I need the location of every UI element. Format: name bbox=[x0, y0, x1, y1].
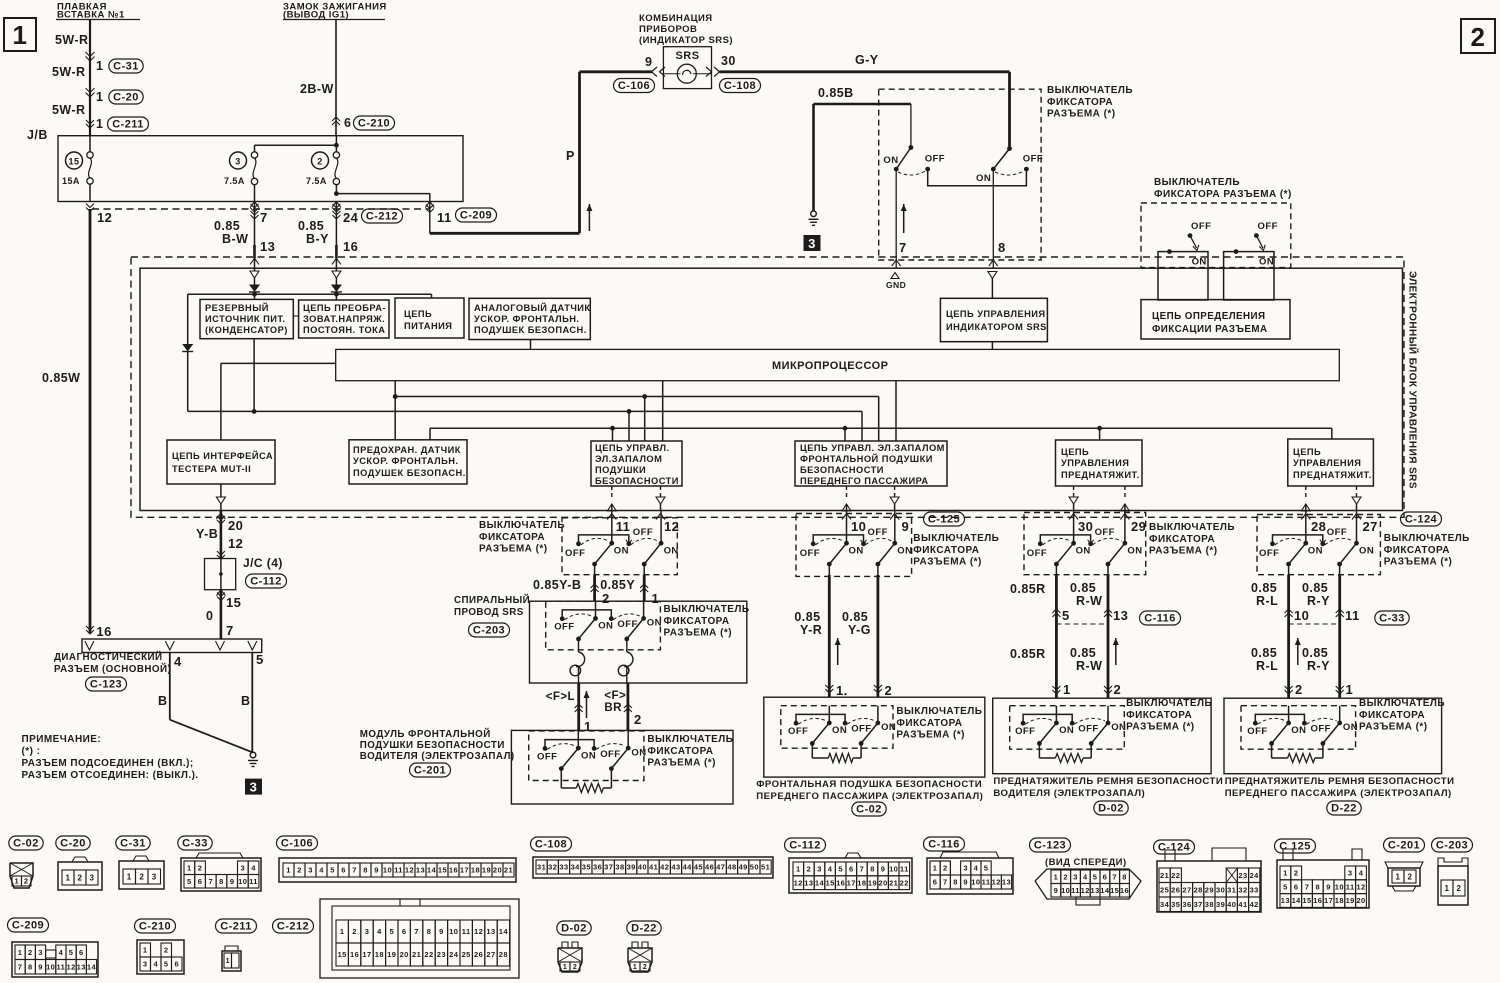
svg-text:40: 40 bbox=[1227, 900, 1236, 909]
svg-text:5: 5 bbox=[1283, 882, 1288, 891]
switch 10/9 lever A bbox=[829, 543, 846, 564]
svg-text:9: 9 bbox=[645, 55, 652, 69]
svg-text:23: 23 bbox=[1238, 871, 1247, 880]
switch 30/29 lever B bbox=[1108, 543, 1125, 564]
svg-text:23: 23 bbox=[437, 950, 446, 959]
passenger module lock switch dashed bbox=[781, 706, 893, 749]
svg-text:1: 1 bbox=[652, 591, 660, 606]
svg-text:39: 39 bbox=[1216, 900, 1225, 909]
connector C-31 pinout bbox=[116, 836, 150, 850]
svg-text:2: 2 bbox=[602, 591, 610, 606]
svg-text:ПРЕДНАТЯЖИТЕЛЬ РЕМНЯ БЕЗОПАСНО: ПРЕДНАТЯЖИТЕЛЬ РЕМНЯ БЕЗОПАСНОСТИ bbox=[993, 776, 1223, 787]
connector C-02 ref bbox=[852, 802, 886, 816]
svg-text:0.85: 0.85 bbox=[214, 219, 240, 233]
svg-text:ФИКСАТОРА: ФИКСАТОРА bbox=[664, 616, 730, 627]
svg-text:ФИКСАТОРА: ФИКСАТОРА bbox=[913, 545, 979, 556]
switch 11/12 lever B bbox=[644, 543, 661, 564]
switch spiral lever B bbox=[627, 618, 644, 639]
svg-text:31: 31 bbox=[1227, 886, 1236, 895]
svg-text:42: 42 bbox=[1250, 900, 1259, 909]
svg-text:31: 31 bbox=[537, 863, 546, 872]
svg-text:ON: ON bbox=[897, 545, 912, 556]
svg-text:C-123: C-123 bbox=[1034, 840, 1066, 852]
svg-text:OFF: OFF bbox=[1191, 221, 1211, 232]
switch 30/29 contact A feed wire bbox=[1073, 510, 1075, 543]
svg-text:ON: ON bbox=[614, 545, 629, 556]
svg-text:РАЗЪЕМА (*): РАЗЪЕМА (*) bbox=[664, 628, 732, 639]
svg-text:ON: ON bbox=[1259, 257, 1274, 268]
svg-text:24: 24 bbox=[343, 210, 359, 225]
svg-text:8: 8 bbox=[363, 866, 368, 875]
switch 30/29 OFF bridge bbox=[1038, 541, 1043, 546]
svg-text:1: 1 bbox=[127, 872, 132, 881]
svg-text:7.5A: 7.5A bbox=[224, 176, 245, 186]
lock detect cell 2 bbox=[1224, 252, 1274, 300]
backup diode branch bbox=[187, 294, 189, 344]
svg-text:1: 1 bbox=[18, 948, 23, 957]
svg-text:22: 22 bbox=[424, 950, 433, 959]
svg-text:Y-R: Y-R bbox=[800, 623, 822, 637]
svg-text:C-211: C-211 bbox=[112, 119, 144, 131]
svg-text:24: 24 bbox=[449, 950, 459, 959]
safing G sensor box bbox=[349, 440, 467, 484]
svg-text:30: 30 bbox=[1078, 519, 1093, 534]
svg-text:C-31: C-31 bbox=[113, 61, 139, 73]
svg-text:ФИКСАТОРА: ФИКСАТОРА bbox=[1359, 710, 1425, 721]
svg-text:13: 13 bbox=[77, 963, 86, 972]
wire 7 to GND bbox=[895, 169, 897, 260]
fuse 15 (15A) bbox=[66, 152, 83, 169]
svg-text:OFF: OFF bbox=[600, 749, 620, 760]
svg-text:OFF: OFF bbox=[1258, 221, 1278, 232]
svg-text:Y-B: Y-B bbox=[196, 527, 218, 541]
svg-text:2: 2 bbox=[1295, 682, 1303, 697]
svg-text:5: 5 bbox=[1093, 873, 1098, 882]
svg-text:ФИКСАТОРА: ФИКСАТОРА bbox=[896, 718, 962, 729]
spiral cable box bbox=[530, 601, 747, 683]
svg-text:ЦЕПЬ УПРАВЛ.: ЦЕПЬ УПРАВЛ. bbox=[595, 443, 670, 453]
svg-text:ON: ON bbox=[631, 747, 646, 758]
lock switch box 10/9 dashed bbox=[796, 514, 912, 577]
switch driver pretensioner lever B bbox=[1091, 723, 1108, 744]
svg-text:12: 12 bbox=[1356, 882, 1365, 891]
svg-text:10: 10 bbox=[46, 963, 55, 972]
svg-text:0.85R: 0.85R bbox=[1010, 647, 1046, 661]
svg-text:ПРОВОД SRS: ПРОВОД SRS bbox=[454, 607, 524, 618]
svg-text:7: 7 bbox=[860, 865, 865, 874]
svg-text:16: 16 bbox=[350, 950, 359, 959]
svg-text:C 125: C 125 bbox=[1279, 841, 1311, 853]
connector C-211 pinout bbox=[216, 919, 257, 933]
switch driver pretensioner contact A bbox=[1055, 706, 1057, 723]
svg-text:РАЗЪЕМА (*): РАЗЪЕМА (*) bbox=[1359, 722, 1427, 733]
svg-text:C-108: C-108 bbox=[724, 80, 756, 92]
svg-text:ЗОВАТ.НАПРЯЖ.: ЗОВАТ.НАПРЯЖ. bbox=[303, 314, 385, 324]
switch 11/12 contact B feed wire bbox=[660, 510, 662, 543]
svg-text:10: 10 bbox=[449, 927, 458, 936]
svg-text:OFF: OFF bbox=[1259, 548, 1279, 559]
connector C-212 ref bbox=[362, 209, 403, 223]
switch 28/27 arc B bbox=[1325, 538, 1354, 544]
svg-text:ВЫКЛЮЧАТЕЛЬ: ВЫКЛЮЧАТЕЛЬ bbox=[896, 706, 982, 717]
switch spiral lever A bbox=[579, 618, 596, 639]
switch driver pretensioner lever A bbox=[1039, 723, 1056, 744]
svg-text:11: 11 bbox=[1345, 608, 1360, 623]
connector C-209 pinout bbox=[8, 918, 49, 932]
svg-text:4: 4 bbox=[153, 960, 158, 969]
svg-text:R-W: R-W bbox=[1076, 659, 1102, 673]
svg-text:27: 27 bbox=[1182, 886, 1191, 895]
svg-text:15: 15 bbox=[69, 157, 80, 167]
svg-text:5: 5 bbox=[330, 866, 335, 875]
svg-text:26: 26 bbox=[1171, 886, 1180, 895]
wire 0.85R upper bbox=[1055, 575, 1058, 624]
svg-text:16: 16 bbox=[1313, 896, 1322, 905]
driver airbag squib control box bbox=[591, 441, 682, 486]
svg-text:1: 1 bbox=[633, 964, 637, 971]
svg-text:10: 10 bbox=[851, 519, 866, 534]
svg-text:OFF: OFF bbox=[1327, 527, 1347, 538]
svg-text:ON: ON bbox=[598, 621, 613, 632]
wire 0.85 Y-R bbox=[828, 575, 831, 698]
svg-text:6: 6 bbox=[341, 866, 346, 875]
svg-text:ПРИБОРОВ: ПРИБОРОВ bbox=[639, 24, 697, 35]
svg-text:B-Y: B-Y bbox=[306, 232, 329, 246]
svg-text:C-108: C-108 bbox=[535, 839, 567, 851]
svg-text:16: 16 bbox=[449, 866, 458, 875]
switch 28/27 contact A feed wire bbox=[1305, 510, 1307, 543]
svg-text:45: 45 bbox=[694, 863, 703, 872]
svg-text:14: 14 bbox=[427, 866, 437, 875]
OFF bridge bottom bbox=[928, 169, 1027, 186]
svg-text:ПРИМЕЧАНИЕ:: ПРИМЕЧАНИЕ: bbox=[22, 734, 102, 745]
svg-text:GND: GND bbox=[886, 280, 906, 290]
svg-text:7: 7 bbox=[1112, 873, 1117, 882]
svg-text:24: 24 bbox=[1250, 871, 1260, 880]
wire 0.85 R-W lower bbox=[1107, 624, 1110, 698]
svg-text:РАЗЪЕМА (*): РАЗЪЕМА (*) bbox=[479, 544, 547, 555]
svg-text:5: 5 bbox=[389, 927, 394, 936]
svg-text:11: 11 bbox=[616, 519, 631, 534]
svg-text:1: 1 bbox=[584, 719, 592, 734]
svg-text:СПИРАЛЬНЫЙ: СПИРАЛЬНЫЙ bbox=[454, 594, 530, 606]
svg-text:9: 9 bbox=[38, 963, 43, 972]
svg-text:ПРЕДНАТЯЖИТ.: ПРЕДНАТЯЖИТ. bbox=[1061, 470, 1140, 480]
connector C-20 pinout bbox=[56, 836, 90, 850]
switch passenger pretensioner lever A bbox=[1272, 723, 1289, 744]
svg-text:ON: ON bbox=[1343, 722, 1358, 733]
svg-text:30: 30 bbox=[1216, 886, 1225, 895]
svg-text:ПРЕДНАТЯЖИТ.: ПРЕДНАТЯЖИТ. bbox=[1293, 470, 1372, 480]
svg-text:9: 9 bbox=[963, 878, 968, 887]
svg-text:46: 46 bbox=[705, 863, 714, 872]
svg-text:8: 8 bbox=[953, 878, 958, 887]
svg-text:0.85: 0.85 bbox=[842, 610, 868, 624]
svg-text:1: 1 bbox=[143, 946, 148, 955]
switch driver pretensioner contact B bbox=[1107, 706, 1109, 723]
switch passenger pretensioner arc A bbox=[1258, 718, 1286, 724]
svg-text:ИСТОЧНИК ПИТ.: ИСТОЧНИК ПИТ. bbox=[205, 314, 285, 324]
svg-text:41: 41 bbox=[649, 863, 658, 872]
connector C-201 pinout bbox=[1384, 838, 1425, 852]
svg-text:0.85: 0.85 bbox=[1251, 581, 1277, 595]
svg-text:OFF: OFF bbox=[925, 154, 945, 165]
svg-text:0.85Y-B: 0.85Y-B bbox=[533, 578, 581, 592]
svg-text:БЕЗОПАСНОСТИ: БЕЗОПАСНОСТИ bbox=[800, 465, 884, 475]
svg-text:32: 32 bbox=[1238, 886, 1247, 895]
backup power supply box bbox=[200, 299, 293, 338]
svg-text:C-02: C-02 bbox=[856, 804, 882, 816]
svg-text:0.85: 0.85 bbox=[1302, 646, 1328, 660]
svg-text:OFF: OFF bbox=[1023, 154, 1043, 165]
GND marker bbox=[891, 273, 899, 279]
lock switch dashed box top-right bbox=[1141, 203, 1291, 268]
svg-text:0.85B: 0.85B bbox=[818, 86, 854, 100]
passenger airbag module box bbox=[764, 697, 985, 777]
switch driver module lever A bbox=[561, 748, 578, 769]
svg-text:7: 7 bbox=[226, 623, 234, 638]
svg-text:12: 12 bbox=[1081, 886, 1090, 895]
svg-text:38: 38 bbox=[1205, 900, 1214, 909]
svg-text:1: 1 bbox=[96, 90, 103, 104]
svg-text:0.85: 0.85 bbox=[1070, 646, 1096, 660]
svg-text:1: 1 bbox=[1346, 682, 1354, 697]
svg-text:13: 13 bbox=[1002, 878, 1011, 887]
svg-text:OFF: OFF bbox=[1095, 527, 1115, 538]
wire 0.85Y bbox=[643, 575, 646, 602]
passenger pretensioner box bbox=[1224, 698, 1442, 774]
passenger squib pins 10/9 bbox=[846, 486, 848, 497]
connector C-210 ref bbox=[354, 116, 395, 130]
svg-text:C-125: C-125 bbox=[928, 514, 960, 526]
svg-text:35: 35 bbox=[582, 863, 591, 872]
SRS ECU solid box bbox=[140, 268, 1403, 510]
svg-text:13: 13 bbox=[1113, 608, 1128, 623]
svg-text:20: 20 bbox=[228, 518, 243, 533]
passenger squib resistor bbox=[811, 743, 813, 758]
switch passenger module arc A bbox=[798, 718, 826, 724]
svg-text:20: 20 bbox=[878, 878, 887, 887]
svg-text:5W-R: 5W-R bbox=[52, 65, 86, 79]
svg-text:2: 2 bbox=[885, 683, 893, 698]
svg-text:(*) :: (*) : bbox=[22, 746, 41, 757]
svg-text:2: 2 bbox=[352, 927, 357, 936]
pretensioner control box 2 bbox=[1288, 439, 1374, 486]
svg-text:33: 33 bbox=[1250, 886, 1259, 895]
svg-text:2: 2 bbox=[78, 873, 83, 882]
svg-text:ON: ON bbox=[1076, 545, 1091, 556]
switch 10/9 arc B bbox=[866, 538, 892, 544]
svg-text:15A: 15A bbox=[62, 176, 80, 186]
wire 0.85 R-Y upper bbox=[1338, 575, 1341, 624]
svg-text:G-Y: G-Y bbox=[855, 53, 879, 67]
switch 10/9 contact B feed wire bbox=[894, 510, 896, 543]
svg-text:7: 7 bbox=[260, 210, 268, 225]
svg-text:30: 30 bbox=[721, 54, 736, 68]
svg-text:ЭЛЕКТРОННЫЙ БЛОК УПРАВЛЕНИЯ SR: ЭЛЕКТРОННЫЙ БЛОК УПРАВЛЕНИЯ SRS bbox=[1407, 271, 1420, 489]
svg-text:C-210: C-210 bbox=[358, 118, 390, 130]
svg-text:OFF: OFF bbox=[851, 724, 871, 735]
svg-text:17: 17 bbox=[847, 878, 856, 887]
switch driver pretensioner arc B bbox=[1074, 718, 1105, 724]
svg-text:C-209: C-209 bbox=[460, 210, 492, 222]
svg-text:2: 2 bbox=[943, 864, 948, 873]
svg-text:6: 6 bbox=[933, 878, 938, 887]
switch driver module lever B bbox=[611, 748, 628, 769]
switch driver pretensioner OFF bridge bbox=[1021, 721, 1026, 726]
svg-text:29: 29 bbox=[1205, 886, 1214, 895]
svg-text:12: 12 bbox=[794, 878, 803, 887]
bus line B bbox=[394, 381, 396, 440]
wire 16 entry diode bbox=[332, 258, 341, 264]
svg-text:OFF: OFF bbox=[537, 751, 557, 762]
wire 0.85Y-B bbox=[593, 575, 596, 602]
svg-text:0.85: 0.85 bbox=[794, 610, 820, 624]
svg-text:ТЕСТЕРА MUT-II: ТЕСТЕРА MUT-II bbox=[172, 464, 251, 474]
svg-text:OFF: OFF bbox=[788, 726, 808, 737]
svg-text:32: 32 bbox=[548, 863, 557, 872]
svg-text:8: 8 bbox=[870, 865, 875, 874]
SRS lamp control box bbox=[940, 298, 1047, 341]
svg-text:16: 16 bbox=[96, 624, 111, 639]
connector C-212 pinout bbox=[273, 919, 314, 933]
svg-text:РАЗЪЕМА (*): РАЗЪЕМА (*) bbox=[1047, 109, 1115, 120]
svg-text:OFF: OFF bbox=[565, 548, 585, 559]
connector C-33 pinout bbox=[178, 836, 212, 850]
svg-text:R-Y: R-Y bbox=[1307, 594, 1330, 608]
svg-text:6: 6 bbox=[849, 865, 854, 874]
svg-text:6: 6 bbox=[198, 877, 203, 886]
svg-text:18: 18 bbox=[1335, 896, 1344, 905]
connector C-211 ref bbox=[108, 117, 149, 131]
svg-text:C-209: C-209 bbox=[12, 920, 44, 932]
svg-text:ФИКСАЦИИ РАЗЪЕМА: ФИКСАЦИИ РАЗЪЕМА bbox=[1152, 324, 1268, 335]
svg-text:C-33: C-33 bbox=[182, 838, 208, 850]
svg-text:36: 36 bbox=[1182, 900, 1191, 909]
svg-text:49: 49 bbox=[739, 863, 748, 872]
svg-text:29: 29 bbox=[1131, 519, 1146, 534]
microprocessor box bbox=[336, 349, 1340, 380]
svg-text:7: 7 bbox=[1305, 882, 1310, 891]
switch spiral arc A bbox=[565, 614, 593, 620]
svg-text:D-22: D-22 bbox=[631, 923, 657, 935]
driver pretensioner resistor bbox=[1038, 743, 1040, 758]
svg-text:R-L: R-L bbox=[1256, 659, 1278, 673]
diagnostic connector box bbox=[82, 639, 262, 653]
svg-text:2: 2 bbox=[643, 964, 647, 971]
wire 5W-R from fusible link bbox=[89, 20, 91, 136]
svg-text:19: 19 bbox=[482, 866, 491, 875]
connector C-203 ref bbox=[469, 623, 510, 637]
svg-text:РАЗЪЕМА (*): РАЗЪЕМА (*) bbox=[1126, 722, 1194, 733]
svg-text:C-116: C-116 bbox=[928, 839, 960, 851]
svg-text:1: 1 bbox=[1063, 682, 1071, 697]
svg-text:3: 3 bbox=[308, 866, 313, 875]
dc voltage converter box bbox=[299, 300, 389, 338]
svg-text:ON: ON bbox=[1192, 257, 1207, 268]
switch 30/29 lever A bbox=[1056, 543, 1073, 564]
svg-text:9: 9 bbox=[1054, 886, 1059, 895]
svg-text:OFF: OFF bbox=[1247, 726, 1267, 737]
svg-text:ФИКСАТОРА РАЗЪЕМА (*): ФИКСАТОРА РАЗЪЕМА (*) bbox=[1154, 189, 1292, 200]
svg-text:1: 1 bbox=[13, 20, 28, 50]
svg-text:20: 20 bbox=[1356, 896, 1365, 905]
svg-text:12: 12 bbox=[405, 866, 414, 875]
svg-text:ПОДУШКИ: ПОДУШКИ bbox=[595, 465, 646, 475]
connector C-20 ref bbox=[109, 90, 143, 104]
switch 11/12 arc B bbox=[631, 538, 658, 544]
svg-text:2: 2 bbox=[573, 964, 577, 971]
connector C-108 pinout bbox=[531, 837, 572, 851]
svg-text:10: 10 bbox=[383, 866, 392, 875]
svg-text:3: 3 bbox=[38, 948, 43, 957]
lock switch box 11/12 dashed bbox=[562, 518, 677, 575]
svg-text:28: 28 bbox=[1194, 886, 1203, 895]
svg-text:9: 9 bbox=[902, 519, 910, 534]
svg-text:РАЗЪЕМА (*): РАЗЪЕМА (*) bbox=[1384, 557, 1452, 568]
svg-text:ВЫКЛЮЧАТЕЛЬ: ВЫКЛЮЧАТЕЛЬ bbox=[913, 533, 999, 544]
svg-text:1: 1 bbox=[187, 864, 192, 873]
svg-text:ЦЕПЬ УПРАВЛ. ЭЛ.ЗАПАЛОМ: ЦЕПЬ УПРАВЛ. ЭЛ.ЗАПАЛОМ bbox=[800, 443, 945, 453]
svg-text:16: 16 bbox=[343, 239, 358, 254]
svg-text:47: 47 bbox=[716, 863, 725, 872]
MP direct drops bbox=[662, 381, 664, 441]
svg-text:41: 41 bbox=[1238, 900, 1247, 909]
wire (F)L bbox=[577, 683, 580, 730]
svg-text:5: 5 bbox=[256, 652, 264, 667]
wire G-Y from pin 30 bbox=[706, 67, 712, 77]
wire 2B-W from ignition switch bbox=[335, 20, 337, 136]
svg-text:9: 9 bbox=[439, 927, 444, 936]
svg-text:РЕЗЕРВНЫЙ: РЕЗЕРВНЫЙ bbox=[205, 302, 269, 313]
svg-text:ФРОНТАЛЬНАЯ ПОДУШКА БЕЗОПАСНОС: ФРОНТАЛЬНАЯ ПОДУШКА БЕЗОПАСНОСТИ bbox=[756, 779, 982, 790]
svg-text:2: 2 bbox=[807, 865, 812, 874]
svg-text:13: 13 bbox=[416, 866, 425, 875]
svg-text:4: 4 bbox=[1083, 873, 1088, 882]
svg-text:ON: ON bbox=[849, 545, 864, 556]
lock switch dashed box top-left bbox=[879, 89, 1041, 260]
svg-text:ON: ON bbox=[647, 618, 662, 629]
svg-text:ДИАГНОСТИЧЕСКИЙ: ДИАГНОСТИЧЕСКИЙ bbox=[54, 651, 163, 663]
connector C-106 pinout bbox=[277, 836, 318, 850]
svg-text:8: 8 bbox=[427, 927, 432, 936]
svg-text:37: 37 bbox=[1194, 900, 1203, 909]
wire 0.85 R-L upper bbox=[1287, 575, 1290, 624]
svg-text:39: 39 bbox=[627, 863, 636, 872]
svg-text:ON: ON bbox=[1359, 545, 1374, 556]
svg-text:20: 20 bbox=[493, 866, 502, 875]
svg-text:C-203: C-203 bbox=[473, 625, 505, 637]
svg-text:ПРЕДНАТЯЖИТЕЛЬ РЕМНЯ БЕЗОПАСНО: ПРЕДНАТЯЖИТЕЛЬ РЕМНЯ БЕЗОПАСНОСТИ bbox=[1225, 776, 1455, 787]
svg-text:2: 2 bbox=[1063, 873, 1068, 882]
switch driver module contact B bbox=[627, 731, 629, 748]
joint connector J/C(4) bbox=[205, 559, 236, 590]
svg-text:19: 19 bbox=[387, 950, 396, 959]
svg-text:8: 8 bbox=[1122, 873, 1127, 882]
ground symbol left bbox=[811, 211, 817, 217]
connector lock sense box bbox=[1141, 300, 1290, 339]
bus line D bbox=[430, 427, 1332, 429]
svg-text:3: 3 bbox=[1348, 869, 1353, 878]
driver module lock switch dashed bbox=[529, 731, 644, 781]
svg-text:ВЫКЛЮЧАТЕЛЬ: ВЫКЛЮЧАТЕЛЬ bbox=[1384, 533, 1470, 544]
svg-text:5: 5 bbox=[838, 865, 843, 874]
svg-text:12: 12 bbox=[474, 927, 483, 936]
svg-text:ВЫКЛЮЧАТЕЛЬ: ВЫКЛЮЧАТЕЛЬ bbox=[647, 734, 733, 745]
switch passenger module OFF bridge bbox=[794, 721, 799, 726]
svg-text:<F>L: <F>L bbox=[546, 691, 575, 703]
svg-text:D-02: D-02 bbox=[1098, 803, 1124, 815]
